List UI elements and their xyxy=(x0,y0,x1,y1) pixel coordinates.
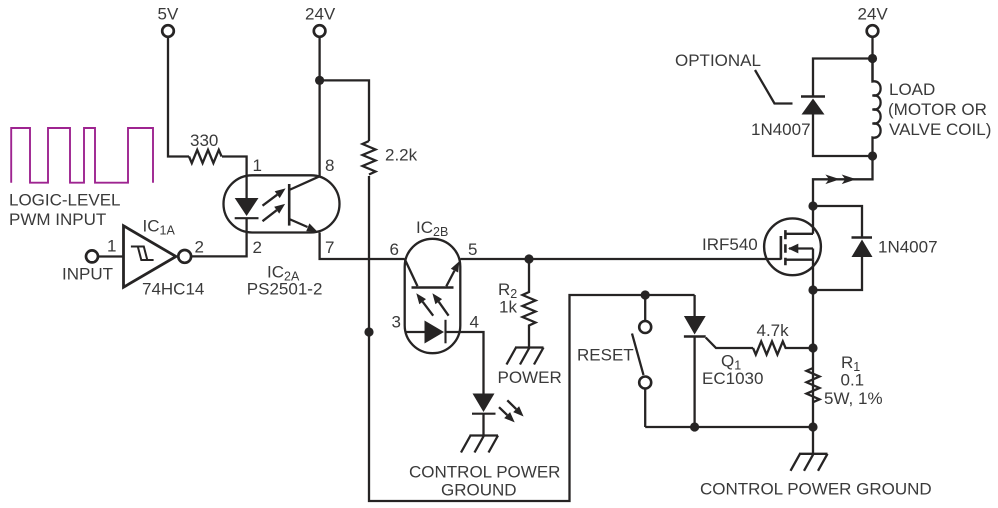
ground CONTROL POWER GROUND (right) xyxy=(700,454,932,499)
svg-text:LOGIC-LEVEL: LOGIC-LEVEL xyxy=(9,191,121,210)
wire IC2B pin5 to gate xyxy=(460,258,781,260)
svg-text:1k: 1k xyxy=(499,298,517,317)
node 4.7k junction xyxy=(808,343,817,352)
24V supply terminal (right) xyxy=(858,5,889,37)
node pin3 junction xyxy=(364,327,373,336)
wire load to drain with arrows xyxy=(813,156,873,206)
transistor IRF540 MOSFET xyxy=(702,218,821,275)
svg-text:LOAD: LOAD xyxy=(889,80,935,99)
svg-text:GROUND: GROUND xyxy=(441,481,517,500)
svg-text:4.7k: 4.7k xyxy=(757,321,790,340)
svg-text:2.2k: 2.2k xyxy=(385,146,418,165)
resistor R1 xyxy=(807,353,883,408)
wire pin4 to LED xyxy=(460,332,483,394)
svg-text:RESET: RESET xyxy=(577,346,634,365)
svg-text:1: 1 xyxy=(253,156,262,175)
optocoupler IC2A PS2501-2 xyxy=(224,175,340,232)
24V supply terminal (left) xyxy=(305,5,336,37)
node R1 bottom junction xyxy=(808,422,817,431)
diode 1N4007 optional xyxy=(751,59,873,157)
node top right junction xyxy=(868,54,877,63)
svg-text:1: 1 xyxy=(107,237,116,256)
svg-text:0.1: 0.1 xyxy=(841,371,865,390)
wire 24V down to pin 8 xyxy=(318,37,320,176)
svg-text:PS2501-2: PS2501-2 xyxy=(247,280,323,299)
node R2 junction xyxy=(524,254,533,263)
wire 2.2k down to pin3 node and bottom xyxy=(369,176,695,501)
svg-text:CONTROL POWER GROUND: CONTROL POWER GROUND xyxy=(700,480,932,499)
ground POWER xyxy=(498,348,562,388)
svg-text:2: 2 xyxy=(195,238,204,257)
gate IC1A 74HC14 Schmitt inverter xyxy=(86,226,191,287)
svg-text:IRF540: IRF540 xyxy=(702,235,758,254)
svg-text:3: 3 xyxy=(392,313,401,332)
svg-text:5W, 1%: 5W, 1% xyxy=(824,389,883,408)
svg-text:POWER: POWER xyxy=(498,368,562,387)
diode 1N4007 body xyxy=(813,206,938,290)
svg-text:(MOTOR OR: (MOTOR OR xyxy=(888,100,987,119)
node load bottom junction xyxy=(868,151,877,160)
svg-text:1N4007: 1N4007 xyxy=(878,238,938,257)
wire inverter output to opto pin 2 xyxy=(191,233,247,257)
svg-text:6: 6 xyxy=(390,240,399,259)
svg-text:7: 7 xyxy=(325,238,334,257)
svg-text:PWM INPUT: PWM INPUT xyxy=(9,210,106,229)
node source junction xyxy=(808,285,817,294)
switch RESET xyxy=(577,295,651,427)
wire 5V to 330 xyxy=(168,37,189,157)
node reset top junction xyxy=(641,290,650,299)
svg-text:OPTIONAL: OPTIONAL xyxy=(675,51,761,70)
svg-text:24V: 24V xyxy=(858,5,889,24)
svg-text:8: 8 xyxy=(325,156,334,175)
svg-text:5: 5 xyxy=(468,240,477,259)
wire source rail down xyxy=(812,206,814,454)
resistor 330 xyxy=(189,131,222,163)
wire jog to 2.2k xyxy=(320,80,369,141)
LED indicator xyxy=(472,394,524,436)
ground CONTROL POWER GROUND (led) xyxy=(409,436,560,500)
node drain junction xyxy=(808,201,817,210)
PWM waveform xyxy=(11,128,153,183)
svg-text:INPUT: INPUT xyxy=(62,265,113,284)
svg-text:1N4007: 1N4007 xyxy=(751,120,811,139)
thyristor Q1 EC1030 xyxy=(684,295,764,427)
inductor LOAD xyxy=(873,59,992,157)
svg-text:330: 330 xyxy=(190,131,218,150)
svg-text:2: 2 xyxy=(253,238,262,257)
resistor R2 1k xyxy=(498,259,536,348)
svg-text:EC1030: EC1030 xyxy=(702,369,763,388)
label LOGIC-LEVEL PWM INPUT xyxy=(9,191,121,230)
svg-text:24V: 24V xyxy=(305,5,336,24)
node scr cathode junction xyxy=(690,422,699,431)
wire pin7 to IC2B pin6 xyxy=(320,233,405,260)
svg-text:VALVE COIL): VALVE COIL) xyxy=(889,120,991,139)
resistor 4.7k xyxy=(753,321,813,355)
wire reset bottom xyxy=(645,426,813,428)
5V supply terminal xyxy=(158,5,179,37)
svg-text:74HC14: 74HC14 xyxy=(142,280,204,299)
label OPTIONAL xyxy=(675,51,793,104)
svg-text:CONTROL POWER: CONTROL POWER xyxy=(409,463,560,482)
wire 330 to pin1 xyxy=(222,157,247,176)
svg-text:4: 4 xyxy=(470,313,479,332)
svg-text:5V: 5V xyxy=(158,5,179,24)
optocoupler IC2B xyxy=(405,239,461,353)
wire 24V down xyxy=(871,37,873,82)
resistor 2.2k xyxy=(363,141,418,175)
node 24V junction xyxy=(315,76,324,85)
